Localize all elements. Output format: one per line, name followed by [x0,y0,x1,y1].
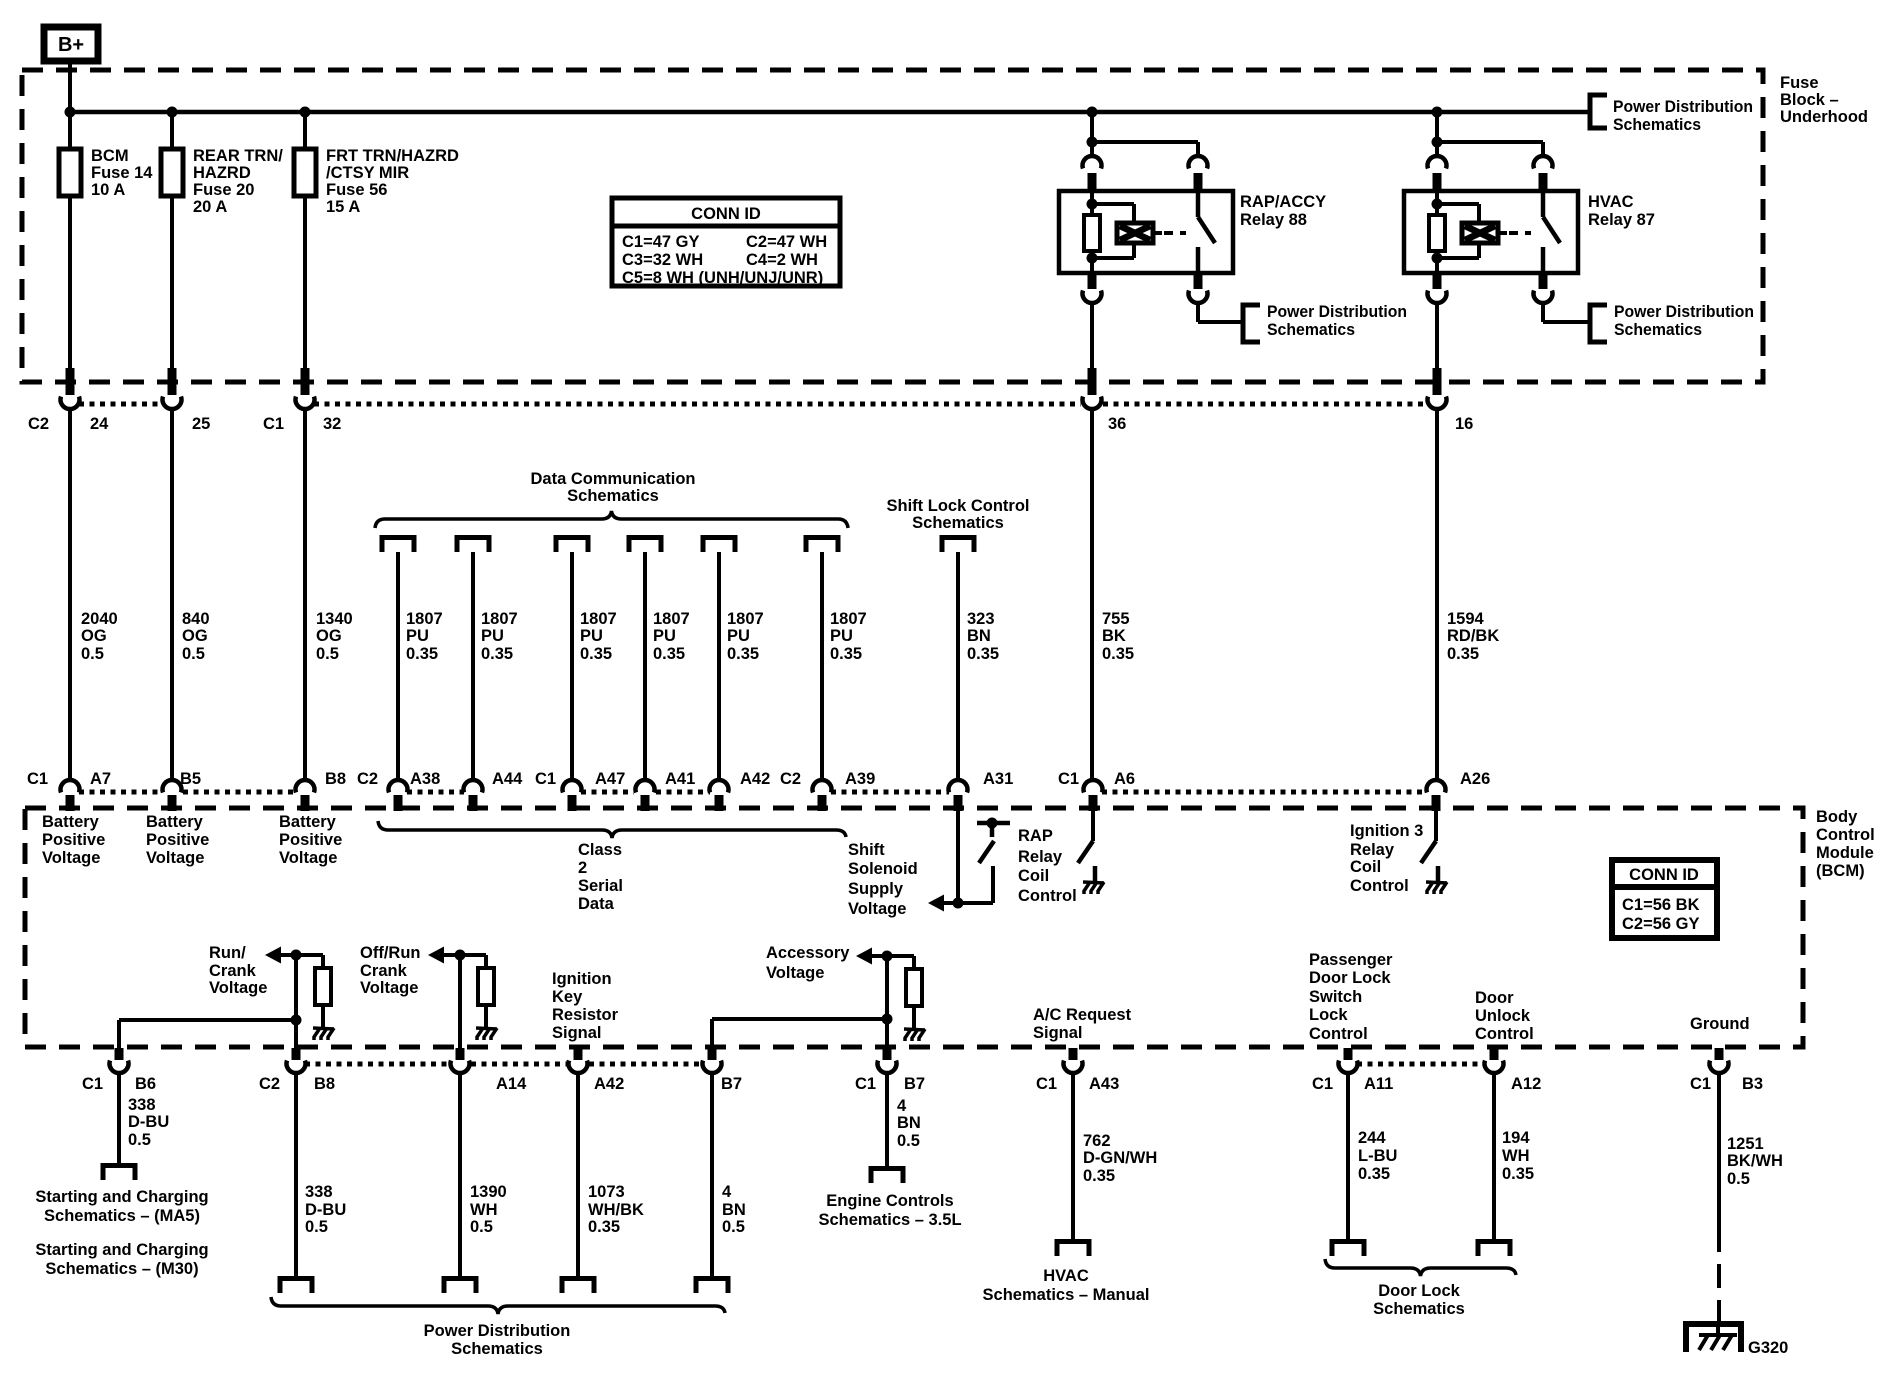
label wire 338 D-BU 0.5 (B8) [305,1183,346,1236]
label Door Lock Schematics [1373,1282,1465,1318]
svg-text:1807: 1807 [481,610,518,628]
svg-text:762: 762 [1083,1132,1111,1150]
svg-text:Power Distribution: Power Distribution [1614,303,1754,321]
svg-text:Control: Control [1018,887,1077,905]
label Ignition 3 Relay Coil Control [1350,822,1423,895]
svg-text:Fuse: Fuse [1780,74,1819,92]
svg-text:FRT TRN/HAZRD: FRT TRN/HAZRD [326,147,459,165]
svg-text:Battery: Battery [146,813,204,831]
connector pin BCM top x=1436 [1427,780,1446,811]
svg-text:338: 338 [128,1096,156,1114]
label Off/Run Crank Voltage [360,944,420,997]
label wire 338 D-BU 0.5 (B6) [128,1096,169,1149]
svg-text:Power Distribution: Power Distribution [424,1322,571,1340]
svg-text:Body: Body [1816,808,1858,826]
svg-text:Control: Control [1309,1025,1368,1043]
label wire 1807 PU 0.35 #4 [653,610,690,663]
svg-text:0.5: 0.5 [470,1218,493,1236]
label Battery Positive Voltage (B5) [146,813,209,867]
resistor relay87 internal [1429,204,1445,258]
svg-text:1594: 1594 [1447,610,1485,628]
svg-text:A7: A7 [90,770,111,788]
svg-text:Crank: Crank [209,962,257,980]
connector pin BCM bottom x=712 [703,1048,722,1073]
svg-text:Schematics: Schematics [1614,321,1702,339]
svg-text:OG: OG [182,627,208,645]
label Data Communication Schematics [530,470,695,505]
svg-text:A42: A42 [594,1075,624,1093]
svg-text:Run/: Run/ [209,944,246,962]
svg-text:PU: PU [481,627,504,645]
svg-text:1390: 1390 [470,1183,507,1201]
label Power Distribution Schematics (relay88) [1267,303,1407,339]
svg-text:A41: A41 [665,770,695,788]
group brace class 2 serial data [378,821,846,838]
relay88 coil entry wire [1090,191,1094,204]
fuse F56 FRT TRN/HAZRD CTSY MIR 15A [294,149,316,196]
label wire 1340 OG 0.5 [316,610,353,663]
label fuse F14 [91,147,153,199]
svg-text:Module: Module [1816,844,1874,862]
label wire 755 BK 0.35 [1102,610,1134,663]
connector line C1 BCM (A7-B5-B8) dotted [79,790,296,795]
connector pin BCM bottom x=1494 [1485,1048,1504,1073]
label pin 36 [1108,415,1126,433]
table CONN ID BCM [1612,860,1717,938]
fuse F14 BCM 10A [59,149,81,196]
svg-text:C1: C1 [855,1075,876,1093]
connector line C1 fuse block (dotted) [314,402,1428,407]
group brace power distribution schematics [271,1297,725,1314]
svg-text:Schematics – Manual: Schematics – Manual [983,1286,1150,1304]
label Door Unlock Control [1475,989,1534,1043]
svg-text:10 A: 10 A [91,181,125,199]
label C1 (BCM top left) [27,770,48,788]
svg-text:16: 16 [1455,415,1473,433]
svg-text:Shift: Shift [848,841,885,859]
junction bus-relay88 [1087,107,1098,118]
svg-text:B+: B+ [58,34,84,56]
label Body Control Module (BCM) [1816,808,1875,880]
svg-text:B6: B6 [135,1075,156,1093]
terminal data-comm 4 [629,538,661,553]
label pin A42 (bottom) [594,1075,624,1093]
svg-text:1807: 1807 [653,610,690,628]
svg-text:Unlock: Unlock [1475,1007,1531,1025]
label Starting and Charging Schematics (M30) [35,1241,208,1278]
label Power Distribution Schematics (relay87) [1614,303,1754,339]
svg-text:RAP: RAP [1018,827,1053,845]
connector pin BCM bottom x=1719 [1710,1048,1729,1073]
terminal data-comm 2 [457,538,489,553]
fuse block underhood boundary (dashed) [22,70,1763,382]
svg-text:B7: B7 [721,1075,742,1093]
svg-text:4: 4 [897,1097,907,1115]
terminal data-comm 1 [382,538,414,553]
coil relay88 winding [1092,204,1153,258]
switch RAP relay coil control [1078,841,1093,863]
wire 194 WH A12 to door lock [1492,1073,1496,1241]
label Accessory Voltage [766,944,850,982]
terminal B6 off-page [103,1166,135,1181]
svg-text:Voltage: Voltage [146,849,204,867]
label wire 840 OG 0.5 [182,610,210,663]
svg-text:A44: A44 [492,770,523,788]
battery feed terminal B+ [44,27,98,61]
off-page connector Power Distribution Schematics (relay87) [1590,305,1607,342]
wire relay87 branch to switch pin [1437,142,1543,157]
svg-text:Ignition 3: Ignition 3 [1350,822,1423,840]
junction shift solenoid node [953,898,964,909]
svg-text:1251: 1251 [1727,1135,1764,1153]
svg-text:0.35: 0.35 [1447,645,1479,663]
junction bus-F20 [167,107,178,118]
label Ground [1690,1015,1750,1033]
svg-text:C1: C1 [535,770,556,788]
svg-text:194: 194 [1502,1129,1530,1147]
label wire 4 BN 0.5 (B7-2) [897,1097,921,1150]
svg-text:Class: Class [578,841,622,859]
label Battery Positive Voltage (B8) [279,813,342,867]
label C1 (B7-2) [855,1075,876,1093]
wire accessory to B7 pin [885,956,889,1048]
connector pin BCM bottom x=119 [110,1048,129,1073]
svg-text:2: 2 [578,859,587,877]
label pin A38 [410,770,440,788]
label C1 (A47 group) [535,770,556,788]
svg-text:Fuse 14: Fuse 14 [91,164,153,182]
svg-text:Voltage: Voltage [279,849,337,867]
wire A6 into BCM [1091,811,1095,841]
svg-text:Fuse 20: Fuse 20 [193,181,254,199]
connector relay88 coil pin bottom [1083,273,1102,303]
wire 840 OG pin25 to B5 [170,408,174,781]
svg-text:CONN ID: CONN ID [691,205,761,223]
svg-text:0.35: 0.35 [830,645,862,663]
svg-text:Schematics – 3.5L: Schematics – 3.5L [818,1211,961,1229]
svg-text:Lock: Lock [1309,1006,1348,1024]
svg-text:Battery: Battery [279,813,337,831]
connector pin BCM top x=70 [61,780,80,811]
label pin A12 [1511,1075,1541,1093]
svg-text:Door: Door [1475,989,1514,1007]
svg-text:0.35: 0.35 [588,1218,620,1236]
wire 1340 OG pin32 to B8 [303,408,307,781]
wire 2040 OG pin24 to A7 [68,408,72,781]
wire bus to fuse F56 [303,112,307,370]
wire 1807 PU #4 [643,552,647,781]
svg-text:0.5: 0.5 [305,1218,328,1236]
label pin A11 [1364,1075,1393,1093]
connector pin BCM bottom x=460 [450,1048,469,1073]
arrow accessory voltage [856,948,872,965]
label pin A44 [492,770,523,788]
svg-text:Schematics – (M30): Schematics – (M30) [45,1260,198,1278]
label pin B3 [1742,1075,1763,1093]
svg-text:C2: C2 [357,770,378,788]
wire off/run to A14 pin [458,955,462,1048]
svg-text:1807: 1807 [580,610,617,628]
wire 1807 PU #1 [396,552,400,781]
svg-text:C2: C2 [28,415,49,433]
connector pin at x=172 fuse block exit [163,368,182,409]
svg-text:244: 244 [1358,1129,1386,1147]
svg-text:0.35: 0.35 [406,645,438,663]
wire ignition3 switch to ground [1436,866,1441,881]
svg-text:0.35: 0.35 [727,645,759,663]
svg-text:A43: A43 [1089,1075,1119,1093]
label C2 (fuse block connector) [28,415,49,433]
label G320 [1748,1339,1788,1357]
label pin B7-2 [904,1075,925,1093]
label Passenger Door Lock Switch Lock Control [1309,951,1393,1043]
connector pin BCM bottom x=1348 [1339,1048,1358,1073]
off-page connector Power Distribution Schematics (bus) [1590,95,1607,128]
svg-text:B8: B8 [325,770,346,788]
svg-text:Engine Controls: Engine Controls [826,1192,953,1210]
svg-text:BN: BN [897,1114,921,1132]
wire A26 into BCM [1434,811,1438,841]
junction relay88 coil bottom [1087,253,1098,264]
svg-text:HVAC: HVAC [1043,1267,1089,1285]
label pin A41 [665,770,695,788]
label Shift Lock Control Schematics [887,497,1030,532]
junction bus-F14 [65,107,76,118]
svg-text:OG: OG [316,627,342,645]
connector pin BCM bottom x=296 [287,1048,306,1073]
body control module boundary (dashed) [25,808,1803,1047]
junction relay87 coil top [1432,199,1443,210]
connector line C1 BCM bottom (A11-A12) dotted [1357,1062,1485,1067]
ground ignition 3 relay coil control [1426,882,1447,894]
label pin B6 [135,1075,156,1093]
label C1 (A6 group) [1058,770,1079,788]
connector pin BCM top x=645 [636,780,655,811]
label wire 323 BN 0.35 [967,610,999,663]
svg-text:0.35: 0.35 [967,645,999,663]
terminal A12 off-page [1478,1242,1510,1257]
wire bus to fuse F20 [170,112,174,370]
terminal A14 off-page [444,1279,476,1294]
terminal shift lock control [942,538,974,553]
terminal B8 off-page [280,1279,312,1294]
group brace data communication [375,511,848,528]
svg-text:C5=8 WH (UNH/UNJ/UNR): C5=8 WH (UNH/UNJ/UNR) [622,269,823,287]
svg-text:WH: WH [1502,1147,1530,1165]
switch relay87 contact [1543,191,1560,273]
svg-text:D-GN/WH: D-GN/WH [1083,1149,1157,1167]
svg-text:A42: A42 [740,770,770,788]
svg-text:0.35: 0.35 [1358,1165,1390,1183]
svg-text:15 A: 15 A [326,198,360,216]
off-page connector Power Distribution Schematics (relay88) [1243,305,1260,342]
svg-text:Relay 87: Relay 87 [1588,211,1655,229]
svg-text:C4=2 WH: C4=2 WH [746,251,818,269]
svg-text:HVAC: HVAC [1588,193,1634,211]
label pin A39 [845,770,875,788]
wire off/run node [444,953,486,957]
svg-text:25: 25 [192,415,210,433]
connector relay87 coil pin bottom [1427,273,1446,303]
svg-text:Resistor: Resistor [552,1006,619,1024]
label C2 (A39 group) [780,770,801,788]
connector line C2 fuse block (dotted) [79,402,163,407]
svg-text:32: 32 [323,415,341,433]
svg-text:0.35: 0.35 [580,645,612,663]
svg-text:G320: G320 [1748,1339,1788,1357]
label C1 (A43) [1036,1075,1057,1093]
label Engine Controls Schematics - 3.5L [818,1192,961,1229]
svg-text:0.5: 0.5 [897,1132,920,1150]
svg-text:A11: A11 [1364,1075,1393,1093]
resistor run/crank pull-down [315,955,331,1028]
label wire 1390 WH 0.5 [470,1183,507,1236]
svg-text:840: 840 [182,610,210,628]
wire 762 D-GN/WH A43 to HVAC [1071,1073,1075,1241]
ground off/run resistor [476,1028,497,1040]
wire 755 BK pin36 to A6 [1090,408,1094,781]
wire run/crank to B8 pin [294,955,298,1048]
wire link to B7-1 pin [710,1019,714,1048]
switch ignition 3 relay coil control [1421,841,1436,863]
connector pin BCM top x=572 [563,780,582,811]
svg-text:C2=56 GY: C2=56 GY [1622,915,1700,933]
svg-text:C1: C1 [1690,1075,1711,1093]
svg-text:Schematics: Schematics [912,514,1004,532]
svg-text:Key: Key [552,988,583,1006]
svg-text:C1: C1 [1058,770,1079,788]
label pin B5 [180,770,201,788]
svg-text:Switch: Switch [1309,988,1362,1006]
svg-text:0.5: 0.5 [128,1131,151,1149]
svg-text:Ground: Ground [1690,1015,1750,1033]
svg-text:0.35: 0.35 [481,645,513,663]
label C1 (B3) [1690,1075,1711,1093]
svg-text:0.5: 0.5 [81,645,104,663]
junction relay87 coil bottom [1432,253,1443,264]
svg-text:WH: WH [470,1201,498,1219]
terminal data-comm 3 [556,538,588,553]
wire run/crank node [281,953,323,957]
connector pin BCM top x=822 [813,780,832,811]
label wire 1594 RD/BK 0.35 [1447,610,1499,663]
svg-text:Accessory: Accessory [766,944,850,962]
svg-text:Coil: Coil [1350,858,1381,876]
junction accessory link [882,1014,893,1025]
svg-text:OG: OG [81,627,107,645]
connector relay87 switch pin bottom [1534,273,1553,303]
label Power Distribution Schematics (bottom) [424,1322,571,1358]
connector pin BCM top x=1093 [1084,780,1103,811]
label Fuse Block - Underhood [1780,74,1868,126]
connector pin at x=1437 fuse block exit [1427,368,1446,409]
svg-text:0.5: 0.5 [182,645,205,663]
svg-text:0.35: 0.35 [653,645,685,663]
svg-text:RAP/ACCY: RAP/ACCY [1240,193,1326,211]
svg-text:0.35: 0.35 [1102,645,1134,663]
svg-text:PU: PU [830,627,853,645]
wire 1807 PU #2 [471,552,475,781]
svg-text:Starting and Charging: Starting and Charging [35,1241,208,1259]
svg-text:Voltage: Voltage [766,964,824,982]
wire RAP switch to ground [1093,866,1098,881]
switch shift supply fixed contact [977,818,1010,838]
svg-text:L-BU: L-BU [1358,1147,1397,1165]
svg-text:Solenoid: Solenoid [848,860,918,878]
connector line C2 BCM (A39-A31) dotted [831,790,949,795]
svg-text:Control: Control [1475,1025,1534,1043]
connector pin BCM top x=172 [163,780,182,811]
connector pin BCM top x=958 [949,780,968,811]
table CONN ID fuse block [612,198,840,287]
svg-text:Voltage: Voltage [848,900,906,918]
arrow run/crank voltage [265,947,281,964]
svg-text:B8: B8 [314,1075,335,1093]
label Battery Positive Voltage (A7) [42,813,105,867]
fuse F20 REAR TRN/HAZRD 20A [161,149,183,196]
svg-text:2040: 2040 [81,610,118,628]
label pin A43 [1089,1075,1119,1093]
wire relay87 coil bottom to pin [1435,258,1439,273]
svg-text:C3=32 WH: C3=32 WH [622,251,703,269]
svg-text:B3: B3 [1742,1075,1763,1093]
svg-text:PU: PU [580,627,603,645]
resistor off/run pull-down [478,955,494,1028]
terminal A42 off-page [562,1279,594,1294]
terminal data-comm 5 [703,538,735,553]
svg-text:Underhood: Underhood [1780,108,1868,126]
svg-text:BK/WH: BK/WH [1727,1152,1783,1170]
arrow off/run crank voltage [428,947,444,964]
wire 1807 PU #3 [570,552,574,781]
svg-text:WH/BK: WH/BK [588,1201,644,1219]
svg-text:Data Communication: Data Communication [530,470,695,488]
wire 244 L-BU A11 to door lock [1346,1073,1350,1241]
wire bus to relay88 coil pin [1090,112,1094,157]
svg-text:A39: A39 [845,770,875,788]
connector pin BCM bottom x=1073 [1064,1048,1083,1073]
label pin A14 [496,1075,527,1093]
wire 338 D-BU B8 to power distribution [294,1073,298,1278]
svg-text:C2: C2 [780,770,801,788]
connector pin at x=305 fuse block exit [296,368,315,409]
relay88 actuation dashed link [1153,231,1186,235]
terminal A11 off-page [1332,1242,1364,1257]
wire B3 dashed segment to G320 [1717,1228,1721,1324]
junction accessory [882,951,893,962]
svg-text:Power Distribution: Power Distribution [1267,303,1407,321]
label wire 194 WH 0.35 [1502,1129,1534,1183]
svg-text:A14: A14 [496,1075,527,1093]
junction run/crank [291,950,302,961]
svg-text:Supply: Supply [848,880,904,898]
label C1 (B6) [82,1075,103,1093]
label pin A31 [983,770,1013,788]
label wire 1807 PU 0.35 #6 [830,610,867,663]
svg-text:A12: A12 [1511,1075,1541,1093]
junction bus-relay87 [1432,107,1443,118]
svg-text:Schematics: Schematics [1267,321,1355,339]
svg-text:/CTSY MIR: /CTSY MIR [326,164,409,182]
svg-text:BN: BN [722,1201,746,1219]
svg-text:Positive: Positive [42,831,105,849]
label C2 (A38 group) [357,770,378,788]
label wire 762 D-GN/WH 0.35 [1083,1132,1157,1185]
svg-text:C1=47 GY: C1=47 GY [622,233,700,251]
svg-text:Block –: Block – [1780,91,1839,109]
label pin 32 [323,415,341,433]
svg-text:C1: C1 [263,415,284,433]
